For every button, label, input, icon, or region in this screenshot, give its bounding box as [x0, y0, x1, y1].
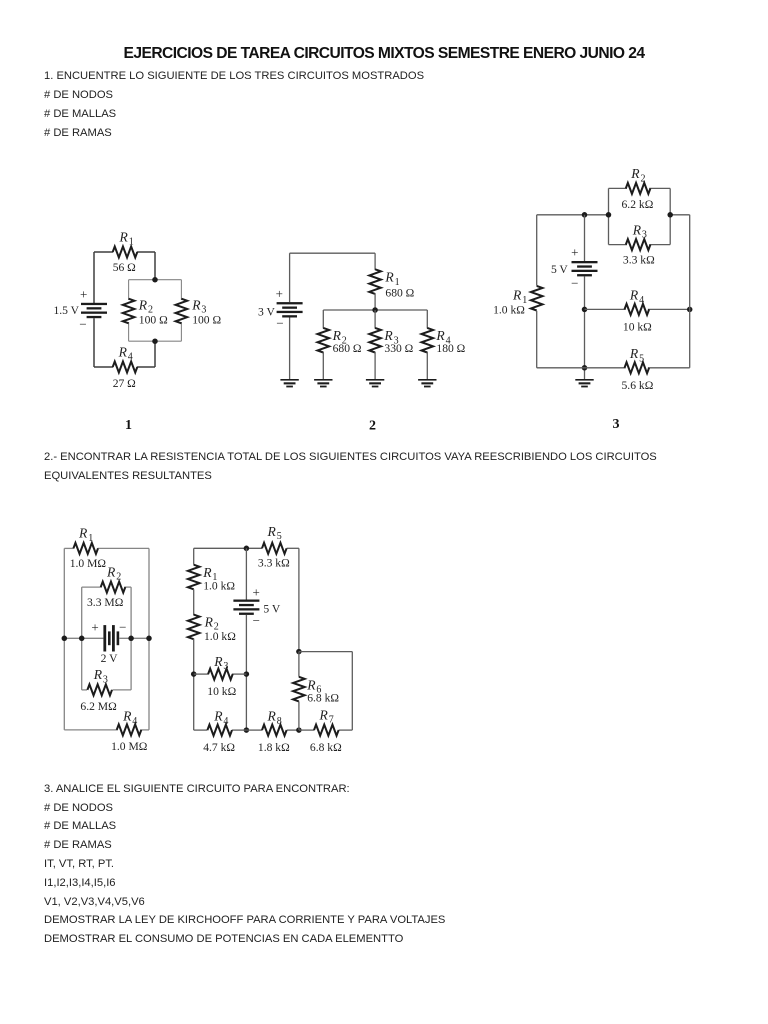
- svg-text:5.6 kΩ: 5.6 kΩ: [622, 379, 654, 392]
- svg-text:1: 1: [88, 533, 93, 544]
- svg-text:2: 2: [641, 173, 646, 184]
- svg-text:6.8 kΩ: 6.8 kΩ: [307, 692, 339, 705]
- svg-text:+: +: [276, 286, 283, 301]
- svg-text:R: R: [384, 270, 394, 285]
- svg-text:R: R: [213, 709, 223, 724]
- svg-text:5 V: 5 V: [551, 263, 568, 276]
- svg-text:4.7 kΩ: 4.7 kΩ: [203, 741, 235, 754]
- svg-text:−: −: [571, 275, 578, 290]
- svg-text:R: R: [383, 328, 393, 343]
- svg-text:7: 7: [329, 715, 334, 726]
- svg-text:6.2 kΩ: 6.2 kΩ: [622, 198, 654, 211]
- svg-text:R: R: [122, 709, 132, 724]
- svg-text:4: 4: [639, 295, 644, 306]
- svg-text:5 V: 5 V: [263, 603, 280, 616]
- svg-text:3.3 MΩ: 3.3 MΩ: [87, 596, 124, 609]
- svg-text:4: 4: [128, 352, 133, 363]
- svg-text:1.0 MΩ: 1.0 MΩ: [111, 740, 148, 753]
- svg-text:R: R: [118, 344, 128, 359]
- svg-text:3: 3: [613, 417, 620, 432]
- svg-text:8: 8: [277, 716, 282, 727]
- svg-text:R: R: [119, 230, 129, 245]
- svg-text:330 Ω: 330 Ω: [384, 342, 413, 355]
- svg-text:−: −: [79, 317, 86, 332]
- svg-text:1: 1: [125, 418, 132, 433]
- svg-text:+: +: [571, 245, 578, 260]
- svg-text:10 kΩ: 10 kΩ: [623, 321, 652, 334]
- svg-text:R: R: [106, 564, 116, 579]
- svg-text:R: R: [204, 614, 214, 629]
- svg-text:R: R: [138, 298, 148, 313]
- svg-text:R: R: [78, 526, 88, 541]
- svg-text:27 Ω: 27 Ω: [113, 377, 136, 390]
- svg-text:2: 2: [369, 419, 376, 434]
- svg-text:−: −: [276, 316, 283, 331]
- svg-text:R: R: [202, 565, 212, 580]
- svg-text:4: 4: [132, 716, 137, 727]
- svg-text:3.3 kΩ: 3.3 kΩ: [258, 556, 290, 569]
- svg-text:R: R: [629, 346, 639, 361]
- svg-text:1.0 kΩ: 1.0 kΩ: [204, 630, 236, 643]
- svg-text:5: 5: [277, 531, 282, 542]
- svg-text:1.0 MΩ: 1.0 MΩ: [70, 557, 107, 570]
- svg-text:+: +: [253, 584, 260, 599]
- svg-text:1.8 kΩ: 1.8 kΩ: [258, 741, 290, 754]
- svg-text:3: 3: [642, 230, 647, 241]
- svg-text:R: R: [267, 524, 277, 539]
- svg-text:180 Ω: 180 Ω: [436, 342, 465, 355]
- svg-text:6.8 kΩ: 6.8 kΩ: [310, 741, 342, 754]
- svg-text:1.5 V: 1.5 V: [53, 304, 79, 317]
- svg-text:R: R: [191, 298, 201, 313]
- svg-text:+: +: [91, 620, 98, 635]
- svg-text:3.3 kΩ: 3.3 kΩ: [623, 254, 655, 267]
- svg-text:R: R: [632, 222, 642, 237]
- svg-text:1: 1: [129, 237, 134, 248]
- svg-text:3 V: 3 V: [258, 305, 275, 318]
- svg-text:100 Ω: 100 Ω: [192, 313, 221, 326]
- svg-text:3: 3: [223, 661, 228, 672]
- svg-text:3: 3: [103, 674, 108, 685]
- svg-text:R: R: [306, 677, 316, 692]
- svg-text:5: 5: [639, 353, 644, 364]
- svg-text:R: R: [435, 328, 445, 343]
- svg-text:+: +: [80, 286, 87, 301]
- svg-text:−: −: [119, 620, 126, 635]
- svg-text:R: R: [319, 707, 329, 722]
- svg-text:R: R: [512, 288, 522, 303]
- svg-text:4: 4: [223, 716, 228, 727]
- svg-text:100 Ω: 100 Ω: [139, 313, 168, 326]
- svg-text:2: 2: [116, 572, 121, 583]
- svg-text:−: −: [253, 613, 260, 628]
- svg-text:R: R: [332, 328, 342, 343]
- svg-text:2 V: 2 V: [101, 652, 118, 665]
- svg-text:R: R: [629, 288, 639, 303]
- svg-text:R: R: [93, 667, 103, 682]
- svg-text:R: R: [213, 654, 223, 669]
- svg-text:R: R: [267, 709, 277, 724]
- svg-text:10 kΩ: 10 kΩ: [207, 685, 236, 698]
- svg-text:R: R: [630, 166, 640, 181]
- svg-text:680 Ω: 680 Ω: [333, 342, 362, 355]
- svg-text:680 Ω: 680 Ω: [385, 286, 414, 299]
- svg-text:1.0 kΩ: 1.0 kΩ: [493, 303, 525, 316]
- svg-text:56 Ω: 56 Ω: [113, 261, 136, 274]
- svg-text:6.2 MΩ: 6.2 MΩ: [80, 700, 117, 713]
- svg-text:1.0 kΩ: 1.0 kΩ: [203, 580, 235, 593]
